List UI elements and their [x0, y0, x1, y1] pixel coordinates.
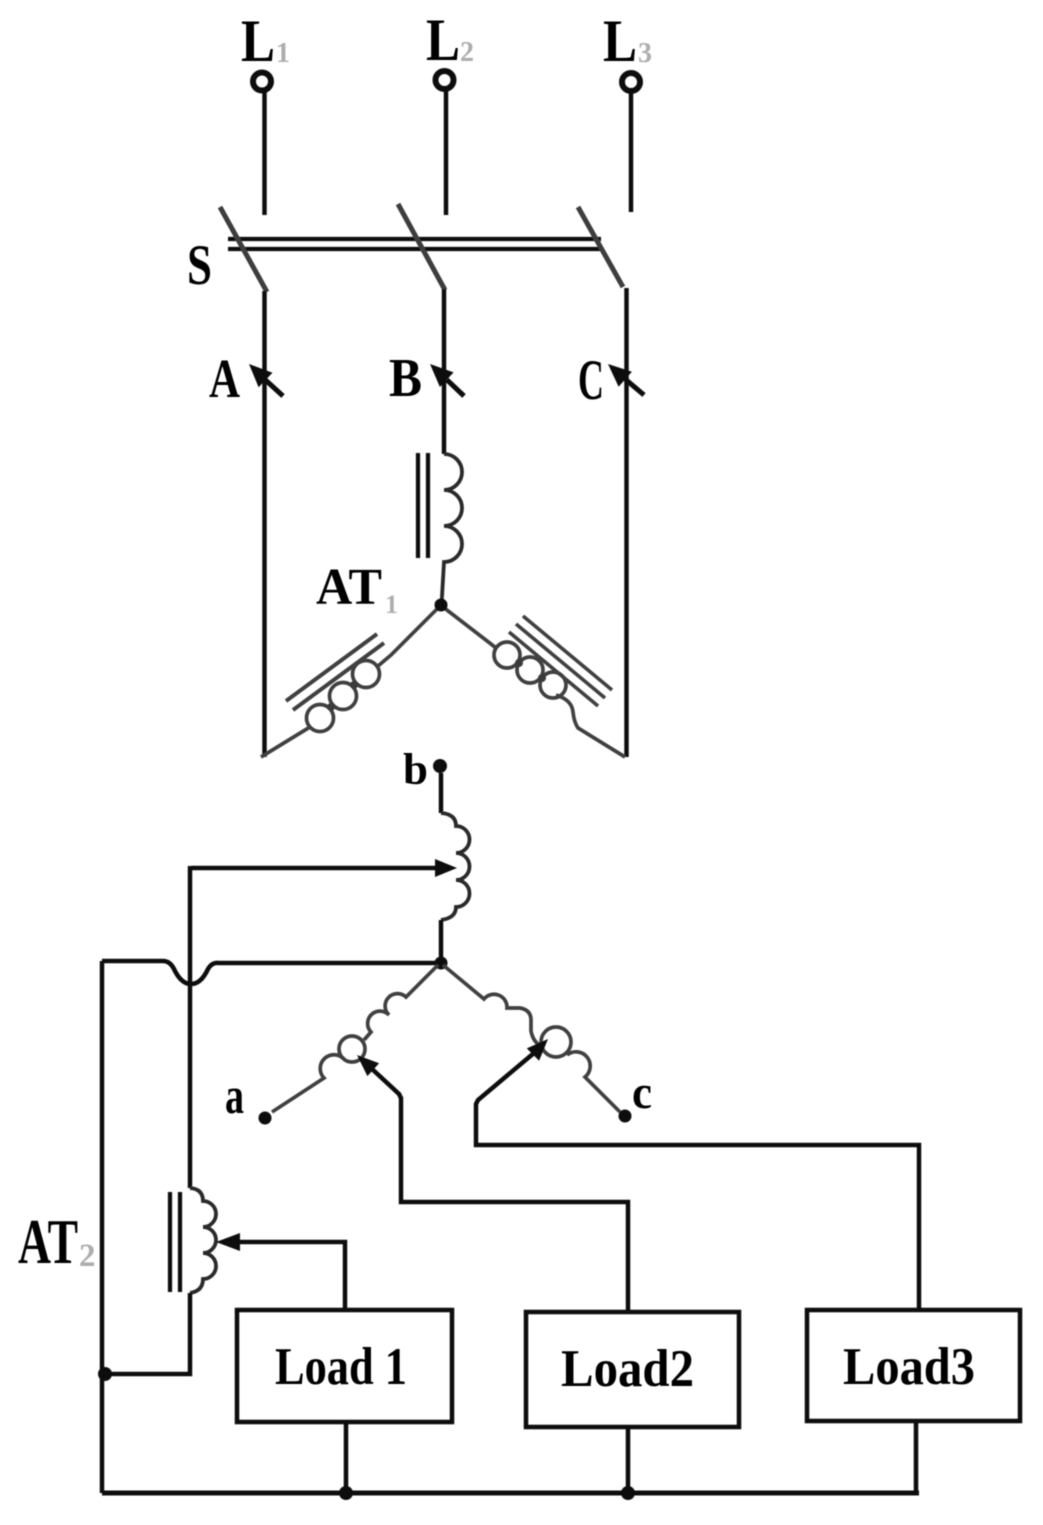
svg-text:C: C — [578, 349, 604, 412]
svg-text:Load 1: Load 1 — [275, 1338, 407, 1396]
svg-text:a: a — [225, 1068, 244, 1125]
svg-text:Load3: Load3 — [843, 1338, 975, 1396]
svg-text:S: S — [187, 234, 212, 297]
svg-text:2: 2 — [460, 37, 474, 68]
svg-text:L: L — [603, 8, 637, 74]
svg-text:AT: AT — [316, 559, 382, 616]
svg-text:AT: AT — [18, 1207, 78, 1277]
svg-text:c: c — [632, 1066, 652, 1119]
svg-text:A: A — [209, 348, 240, 409]
svg-text:b: b — [403, 745, 428, 794]
svg-text:2: 2 — [79, 1238, 96, 1274]
svg-text:3: 3 — [638, 38, 652, 69]
svg-text:L: L — [241, 8, 275, 74]
svg-text:L: L — [426, 7, 460, 73]
svg-text:B: B — [389, 347, 422, 408]
svg-text:1: 1 — [276, 38, 290, 69]
svg-text:1: 1 — [385, 590, 398, 619]
svg-text:Load2: Load2 — [561, 1340, 694, 1398]
